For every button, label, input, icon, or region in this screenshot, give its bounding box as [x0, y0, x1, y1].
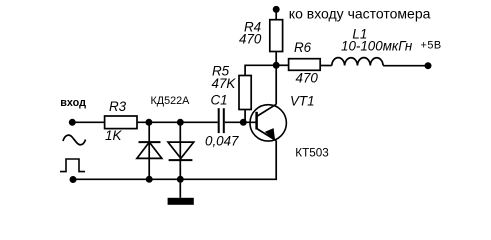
wire: emitter lead down and left to ground rail — [73, 140, 276, 179]
svg-text:вход: вход — [60, 97, 86, 109]
svg-text:КТ503: КТ503 — [295, 147, 328, 160]
inductor L1 — [332, 58, 383, 66]
svg-text:C1: C1 — [211, 92, 228, 107]
resistor R6 — [289, 59, 321, 71]
capacitor C1 plates — [219, 108, 224, 133]
svg-text:R3: R3 — [109, 99, 127, 114]
svg-text:R6: R6 — [294, 40, 312, 55]
wire: R4 bottom to collector junction — [275, 52, 277, 66]
wire: input terminal to R3 — [72, 121, 104, 123]
svg-text:47K: 47K — [212, 76, 237, 91]
square pulse symbol — [60, 159, 85, 172]
node: input top terminal — [69, 119, 76, 126]
wire: VD1 branch vertical — [148, 122, 150, 179]
wire: R5 top to collector junction — [245, 65, 276, 75]
diode VD2 (anode up, cathode down) — [168, 142, 194, 160]
transistor VT1 emitter arrow — [265, 128, 275, 140]
svg-text:0,047: 0,047 — [205, 134, 239, 149]
wire: R6 to L1 — [320, 65, 332, 67]
wire: ground stub — [179, 179, 181, 198]
node: +5V terminal — [425, 62, 432, 69]
svg-text:1K: 1K — [105, 128, 122, 143]
transistor VT1 collector diagonal — [257, 104, 277, 116]
wire: L1 to +5V terminal — [383, 65, 428, 67]
node: collector junction dot — [273, 62, 280, 69]
node: junction VD2 top — [177, 119, 184, 126]
wire: R4 top stub — [275, 9, 277, 19]
svg-text:470: 470 — [239, 32, 262, 47]
svg-text:10-100мкГн: 10-100мкГн — [341, 38, 413, 53]
transistor VT1 base bar — [255, 112, 258, 130]
resistor R3 — [105, 116, 137, 129]
resistor R5 — [239, 76, 251, 110]
wire: R5 bottom to base node — [244, 110, 246, 123]
svg-text:ко входу частотомера: ко входу частотомера — [289, 6, 431, 22]
node: input bottom terminal — [70, 176, 77, 183]
svg-text:VT1: VT1 — [290, 94, 315, 109]
node: output terminal above R4 — [273, 6, 280, 13]
node: junction R3/VD1 top — [145, 119, 152, 126]
wire: C1 to transistor base — [225, 121, 257, 123]
diode VD1 (anode down, cathode up) — [137, 142, 162, 158]
ground — [168, 198, 194, 205]
wire: R3 to C1 — [137, 121, 218, 123]
svg-text:470: 470 — [296, 71, 319, 86]
node: base junction — [240, 119, 247, 126]
wire: collector lead — [275, 65, 277, 104]
transistor VT1 circle — [250, 105, 286, 141]
node: VD1 bottom junction — [146, 176, 153, 183]
wire: VD2 branch vertical — [179, 122, 181, 179]
resistor R4 — [270, 20, 283, 52]
wire: collector junction to R6 — [276, 64, 288, 66]
svg-text:КД522А: КД522А — [151, 95, 191, 107]
transistor VT1 emitter diagonal — [257, 129, 276, 141]
svg-text:+5В: +5В — [421, 40, 442, 52]
sine wave symbol — [63, 135, 86, 145]
node: VD2 bottom junction — [177, 176, 184, 183]
